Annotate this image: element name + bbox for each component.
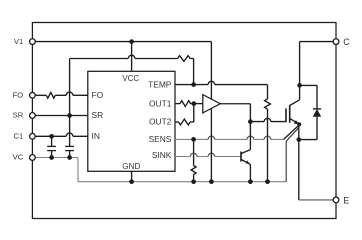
wire SENS pull-down lead xyxy=(193,139,195,165)
junction OUT1 node xyxy=(191,101,196,106)
svg-text:V1: V1 xyxy=(14,37,23,46)
wire diode anode to emitter node xyxy=(299,139,317,141)
resistor R2 (FO) xyxy=(46,92,55,98)
svg-text:OUT1: OUT1 xyxy=(149,98,172,108)
wire SENS kelvin diagonal xyxy=(284,125,299,139)
wire V1 drop xyxy=(210,42,212,182)
junction gate node xyxy=(248,119,253,124)
diode D1 xyxy=(313,108,321,110)
resistor R6 (SENS) xyxy=(191,166,196,175)
wire collector to diode xyxy=(300,84,317,86)
capacitor C2 (C1-VC) xyxy=(51,136,53,146)
wire amp output xyxy=(220,103,250,105)
junction VC/cap2 xyxy=(67,155,72,160)
svg-text:SR: SR xyxy=(92,110,104,120)
terminal E xyxy=(333,197,339,203)
junction GND pin xyxy=(129,179,134,184)
junction SR rail xyxy=(67,113,72,118)
svg-text:FO: FO xyxy=(92,90,104,100)
wire SENS xyxy=(175,138,284,140)
wire TEMP xyxy=(175,84,268,86)
wire OUT1 lead xyxy=(175,103,180,105)
transistor Q2 emitter xyxy=(241,159,250,164)
svg-text:SR: SR xyxy=(13,111,24,120)
junction SENS node xyxy=(191,137,196,142)
svg-text:IN: IN xyxy=(92,131,100,141)
outer package frame xyxy=(32,23,336,219)
wire VC rail xyxy=(35,157,78,159)
svg-text:FO: FO xyxy=(13,90,24,99)
wire R3 to GND rail xyxy=(267,109,269,182)
wire TEMP drop xyxy=(267,85,269,99)
resistor R5 (OUT2) xyxy=(179,119,191,125)
junction C1/cap xyxy=(49,134,54,139)
junction Q2 emitter gnd xyxy=(248,179,253,184)
wire GND rail xyxy=(78,181,286,183)
svg-text:OUT2: OUT2 xyxy=(149,117,172,127)
wire emitter to E xyxy=(298,140,300,200)
wire SR filter rail xyxy=(70,58,178,60)
wire OUT2 up to OUT1 node xyxy=(190,121,194,123)
junction collector node xyxy=(297,83,302,88)
terminal SR xyxy=(30,113,36,119)
IC U1 gate-control block xyxy=(88,71,175,171)
resistor R4 (OUT1) xyxy=(180,101,191,107)
wire FO lead-in xyxy=(35,94,46,96)
wire SR to IC xyxy=(35,115,88,117)
terminal C1 xyxy=(30,133,36,139)
op-amp U2 buffer xyxy=(203,95,220,113)
wire GND stub xyxy=(131,171,133,181)
IGBT Q1 gate bar xyxy=(285,109,287,123)
wire SR cap rail xyxy=(69,59,71,147)
junction R3 gnd xyxy=(265,179,270,184)
svg-text:GND: GND xyxy=(122,162,140,171)
transistor Q2 base bar xyxy=(240,152,242,162)
IGBT Q1 body bar xyxy=(289,105,291,123)
terminal VC xyxy=(30,155,36,161)
wire C1/IN to IC xyxy=(35,135,88,137)
wire VCC stub xyxy=(131,42,133,72)
svg-text:C: C xyxy=(343,37,350,47)
svg-text:SINK: SINK xyxy=(152,150,172,160)
svg-text:SENS: SENS xyxy=(149,134,172,144)
wire R6 to GND rail xyxy=(193,175,195,182)
capacitor C3 (SR-VC) xyxy=(65,145,74,147)
svg-text:VC: VC xyxy=(13,153,24,162)
wire GND kelvin diagonal xyxy=(286,127,299,141)
IGBT Q1 emitter lead xyxy=(290,118,300,124)
resistor R1 xyxy=(178,56,191,62)
junction IGBT emitter arrow node xyxy=(297,122,301,126)
junction emitter/sense node xyxy=(296,137,301,142)
svg-text:E: E xyxy=(343,195,349,205)
junction TEMP node xyxy=(191,82,196,87)
wire VC corner down xyxy=(77,158,79,182)
terminal V1 xyxy=(30,39,36,45)
IGBT Q1 collector lead xyxy=(290,100,300,106)
junction V1-drop gnd xyxy=(209,179,214,184)
svg-text:C1: C1 xyxy=(13,131,23,140)
wire FO to IC xyxy=(55,94,88,96)
wire OUT1 node to amp xyxy=(191,103,203,105)
transistor Q2 collector xyxy=(241,150,250,154)
svg-text:TEMP: TEMP xyxy=(148,79,172,89)
resistor R3 (TEMP) xyxy=(265,99,271,109)
wire collector to C xyxy=(299,42,301,86)
wire SINK xyxy=(175,156,241,158)
wire V1 rail xyxy=(32,41,211,43)
svg-text:VCC: VCC xyxy=(122,74,139,83)
wire R1 to TEMP node xyxy=(190,58,193,60)
junction VC/cap1 xyxy=(49,155,54,160)
wire gate line xyxy=(250,121,286,123)
junction V1/VCC xyxy=(129,39,134,44)
terminal FO xyxy=(30,92,36,98)
junction R6 gnd xyxy=(191,179,196,184)
terminal C xyxy=(333,39,339,45)
wire OUT2 lead xyxy=(175,121,179,123)
